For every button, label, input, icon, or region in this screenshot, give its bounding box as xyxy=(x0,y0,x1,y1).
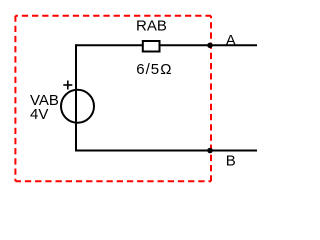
boundary right edge xyxy=(210,16,212,181)
node A junction dot xyxy=(207,43,213,49)
terminal label B xyxy=(226,152,236,169)
Thevenin equivalent boundary (red dashed box) top edge xyxy=(15,15,211,17)
svg-text:4V: 4V xyxy=(30,106,48,123)
voltage source VAB (circle) xyxy=(61,90,94,123)
svg-text:RAB: RAB xyxy=(136,18,167,35)
node B junction dot xyxy=(207,148,213,154)
svg-text:6/5Ω: 6/5Ω xyxy=(136,61,172,78)
wire: left vertical through source VAB xyxy=(75,44,77,151)
wire: bottom horizontal from source to terminal B xyxy=(75,150,257,152)
resistor RAB (box body) xyxy=(143,41,160,52)
voltage source polarity + sign xyxy=(63,81,72,90)
voltage source label VAB 4V xyxy=(30,92,59,123)
resistor value 6/5Ω xyxy=(136,61,172,78)
svg-text:B: B xyxy=(226,152,236,169)
boundary bottom edge xyxy=(15,180,211,182)
terminal label A xyxy=(226,32,236,49)
wire: top horizontal from source to terminal A xyxy=(76,44,257,46)
svg-text:A: A xyxy=(226,32,236,49)
boundary left edge xyxy=(14,16,16,181)
resistor label RAB xyxy=(136,18,167,35)
